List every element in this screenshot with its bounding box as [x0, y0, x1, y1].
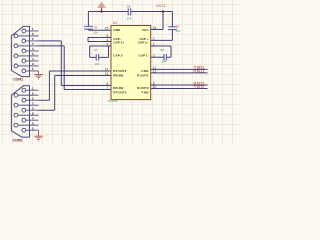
svg-text:RR-IN2: RR-IN2: [113, 86, 124, 90]
svg-text:RR-IN1: RR-IN1: [113, 73, 124, 77]
svg-text:2: 2: [153, 37, 155, 41]
svg-text:104: 104: [127, 17, 132, 21]
svg-text:104: 104: [162, 59, 167, 63]
svg-text:C5: C5: [176, 24, 180, 28]
svg-text:5: 5: [106, 42, 108, 46]
svg-text:CAP 1-: CAP 1-: [139, 54, 149, 58]
svg-text:14: 14: [105, 67, 109, 71]
svg-text:T-IN2: T-IN2: [141, 91, 149, 95]
svg-text:GND: GND: [113, 28, 121, 32]
svg-text:CAP 1+: CAP 1+: [138, 41, 149, 45]
svg-text:C8: C8: [127, 4, 131, 8]
svg-text:COM1: COM1: [13, 78, 23, 82]
svg-text:C6: C6: [160, 48, 164, 52]
svg-text:15: 15: [105, 27, 109, 31]
svg-text:12: 12: [153, 70, 157, 74]
svg-text:R-OUT2: R-OUT2: [137, 86, 149, 90]
svg-text:3: 3: [153, 54, 155, 58]
svg-text:7: 7: [106, 86, 108, 90]
svg-text:VCC: VCC: [142, 28, 149, 32]
svg-text:104: 104: [176, 29, 181, 33]
svg-text:4: 4: [106, 38, 108, 42]
svg-text:RT-OUT2: RT-OUT2: [113, 91, 127, 95]
svg-text:13: 13: [105, 72, 109, 76]
svg-text:104: 104: [95, 62, 100, 66]
svg-text:10: 10: [153, 85, 157, 89]
svg-text:COM2: COM2: [13, 139, 23, 143]
svg-text:16: 16: [153, 26, 157, 30]
svg-text:1: 1: [153, 43, 155, 47]
svg-text:MAX232: MAX232: [108, 99, 119, 103]
svg-text:VCC1: VCC1: [156, 4, 166, 8]
svg-text:CAP 2+: CAP 2+: [113, 41, 124, 45]
svg-text:CAP 2-: CAP 2-: [113, 54, 123, 58]
svg-text:TXD2: TXD2: [194, 84, 205, 89]
svg-text:104: 104: [93, 30, 98, 34]
svg-text:U1: U1: [113, 21, 117, 25]
svg-text:C7: C7: [94, 48, 98, 52]
svg-text:R-OUT1: R-OUT1: [137, 73, 149, 77]
svg-text:RXD1: RXD1: [193, 69, 205, 74]
svg-text:C9: C9: [94, 26, 98, 30]
